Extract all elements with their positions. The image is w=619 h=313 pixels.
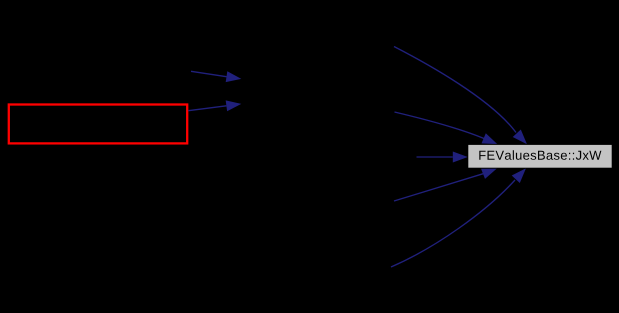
node FEValuesBase::JxW (gray current node) bbox=[468, 144, 612, 168]
edge: upper-left caller to middle node (arrow) bbox=[191, 71, 241, 82]
label: FEValuesBase::JxW bbox=[479, 150, 601, 160]
edge: caller 5 curve to FEValuesBase::JxW (bottom big arc) bbox=[391, 168, 526, 267]
edge: red box to middle node (arrow) bbox=[188, 100, 241, 111]
edge: caller 1 curve to FEValuesBase::JxW (top big arc) bbox=[394, 47, 527, 145]
node: red truncated caller box (left) bbox=[9, 105, 187, 144]
edge: caller 2 curve to FEValuesBase::JxW (upper shallow) bbox=[395, 112, 498, 144]
edge: caller 4 curve to FEValuesBase::JxW (lower shallow) bbox=[394, 168, 497, 201]
edge: caller 3 horizontal arrow to FEValuesBase::JxW bbox=[417, 152, 468, 163]
